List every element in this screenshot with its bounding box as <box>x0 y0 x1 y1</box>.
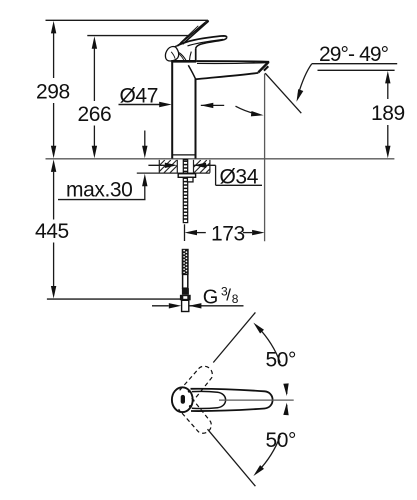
hose smooth tube section <box>183 274 188 288</box>
top view upper angle arc <box>258 327 280 362</box>
svg-text:/: / <box>226 286 231 305</box>
dim 298 arrows <box>51 21 56 34</box>
top view center line <box>219 399 294 401</box>
svg-text:Ø34: Ø34 <box>220 165 259 188</box>
cartridge dome <box>175 46 196 61</box>
dim 189 top reference line <box>318 69 395 71</box>
dim 189 extension line <box>387 83 389 146</box>
top view handle outline <box>191 389 273 411</box>
spout top inner edge <box>197 62 267 65</box>
top view pivot slot <box>181 395 185 404</box>
dim 29-49 arc arrow to vertical <box>236 106 258 114</box>
dome nose inner strokes <box>171 52 184 61</box>
dim 29-49 leader arc to flow line <box>298 64 312 95</box>
hose end collar <box>182 288 189 295</box>
deck underside line <box>137 172 210 174</box>
lever open position (raised blade) <box>177 21 208 46</box>
svg-text:173: 173 <box>211 223 245 246</box>
dim G3/8 arrows <box>152 305 169 307</box>
dim 445 extension line <box>53 172 55 287</box>
dim max.30 upper leader with arrow <box>144 131 146 147</box>
faucet body left edge <box>171 61 173 158</box>
G3/8 connector nut <box>180 295 191 301</box>
svg-text:266: 266 <box>78 103 112 126</box>
dim Ø47 right arrow <box>201 104 224 106</box>
top view dashed grip rotated -50 <box>179 398 215 437</box>
threaded rod <box>183 160 187 223</box>
dim 298 top reference line <box>46 19 209 21</box>
svg-text:8: 8 <box>232 292 239 306</box>
faucet body top bar <box>171 60 196 63</box>
svg-text:G: G <box>203 287 219 309</box>
dome nose (left blob) <box>165 47 178 61</box>
dim Ø34 underline <box>216 184 262 186</box>
lever closed position (handle) <box>177 36 227 49</box>
top view lower angle arc <box>285 405 288 412</box>
dim 189 arrows <box>385 71 390 84</box>
svg-text:Ø47: Ø47 <box>120 85 159 108</box>
projection line from spout tip <box>264 74 266 242</box>
svg-text:445: 445 <box>35 220 69 243</box>
svg-text:29°- 49°: 29°- 49° <box>319 43 389 66</box>
aerator outlet face <box>258 62 268 73</box>
body/spout fillet curve <box>188 65 195 79</box>
svg-text:50°: 50° <box>266 429 297 452</box>
countertop section hatching left block <box>152 160 183 173</box>
base plinth line <box>172 154 195 156</box>
top view lower 50deg ray <box>208 429 256 486</box>
nut step washer <box>187 177 193 182</box>
top view upper 50deg ray <box>213 312 255 362</box>
dim 173 left tick <box>184 224 186 241</box>
top view pivot circle <box>172 387 193 412</box>
dim 266 extension line <box>93 48 95 146</box>
countertop deck line <box>46 158 395 160</box>
dim max.30 underline <box>58 199 146 201</box>
flexible hose braided section <box>182 249 189 275</box>
dim 266 arrows <box>92 36 97 49</box>
top view handle inner grip <box>192 391 226 408</box>
dim 29-49 flow direction line <box>265 73 301 113</box>
svg-text:50°: 50° <box>266 349 297 372</box>
spout top outer edge <box>196 60 269 63</box>
faucet body right edge <box>195 79 197 159</box>
top view dots <box>188 390 191 393</box>
dim Ø47 label underline / arrow line <box>119 104 162 106</box>
svg-text:189: 189 <box>371 102 405 125</box>
svg-text:max.30: max.30 <box>66 179 132 202</box>
dim Ø34 leader vertical <box>215 165 217 185</box>
aerator inner mark <box>264 66 268 70</box>
dim 445 bottom reference line <box>47 298 180 300</box>
deck section outline <box>159 160 210 173</box>
dim Ø34 arrows at shank <box>148 164 164 166</box>
connector tube end <box>182 300 189 311</box>
svg-text:298: 298 <box>36 81 70 104</box>
dim 445 arrows <box>51 159 56 172</box>
dim 173 arrows <box>197 232 206 234</box>
top view dashed grip rotated +50 <box>180 363 216 402</box>
dim 29-49 underline <box>312 63 397 65</box>
dim 266 reference line <box>87 35 188 37</box>
countertop section hatching right block <box>188 160 219 173</box>
spout underside <box>196 73 259 79</box>
dim 298 extension line <box>53 33 55 146</box>
mounting nut <box>178 174 195 178</box>
dim max.30 lower leader with arrow <box>144 186 146 200</box>
